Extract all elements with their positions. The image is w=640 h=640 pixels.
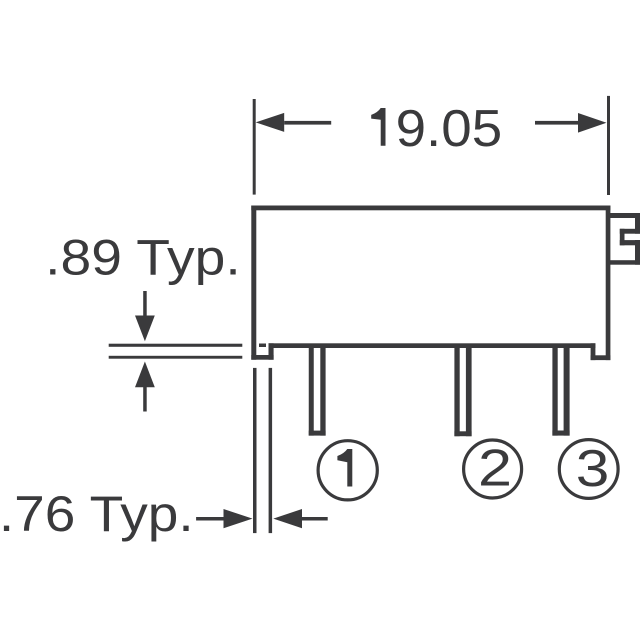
- pin 1 callout circle: [318, 441, 377, 500]
- left standoff foot bottom: [251, 355, 273, 360]
- left standoff foot right edge: [269, 343, 274, 359]
- adjustment screw slot left wall: [620, 229, 625, 246]
- right standoff foot left edge: [591, 343, 596, 360]
- dimension label .89 Typ.: [45, 229, 240, 285]
- dimension .89 down arrow: [135, 291, 155, 341]
- body outline right edge: [606, 206, 611, 361]
- adjustment screw notch top bar: [607, 213, 640, 218]
- dimension 19.05 right extension line: [607, 96, 610, 195]
- pin 3 callout circle: [559, 440, 618, 499]
- dimension .76 left-pointing arrow: [273, 509, 327, 528]
- pin 1 lead: [309, 348, 326, 436]
- dimension .76 right-pointing arrow: [196, 509, 252, 528]
- dimension 19.05 left arrow: [256, 113, 332, 132]
- body outline left edge: [251, 206, 256, 360]
- adjustment screw notch right strip upper: [635, 213, 640, 234]
- svg-text:.76 Typ.: .76 Typ.: [0, 486, 194, 542]
- body outline bottom edge: [269, 343, 596, 348]
- dimension 19.05 right arrow: [535, 113, 607, 133]
- svg-text:2: 2: [478, 440, 512, 498]
- dimension .76 left extension line: [253, 368, 257, 533]
- adjustment screw slot upper bar: [620, 229, 640, 234]
- dimension 19.05 left extension line: [253, 99, 256, 195]
- dimension label 19.05: [371, 100, 502, 158]
- body outline top edge: [251, 206, 610, 211]
- right standoff foot bottom: [591, 355, 611, 360]
- adjustment screw notch bottom bar: [606, 260, 640, 265]
- adjustment screw notch right strip lower: [635, 240, 640, 265]
- dimension .89 upper thin line: [109, 344, 243, 347]
- dimension .89 up arrow: [135, 362, 155, 412]
- adjustment screw slot lower bar: [620, 240, 640, 245]
- svg-text:3: 3: [576, 440, 610, 498]
- left standoff inner dash: [259, 344, 266, 348]
- pin 3 lead: [552, 348, 569, 436]
- svg-text:.89 Typ.: .89 Typ.: [45, 229, 240, 285]
- dimension .89 lower thin line: [109, 356, 243, 359]
- dimension .76 right extension line: [269, 368, 273, 533]
- pin 2 callout circle: [464, 440, 522, 499]
- svg-text:9.05: 9.05: [396, 100, 503, 158]
- pin 2 lead: [454, 348, 471, 437]
- dimension label .76 Typ.: [0, 486, 194, 542]
